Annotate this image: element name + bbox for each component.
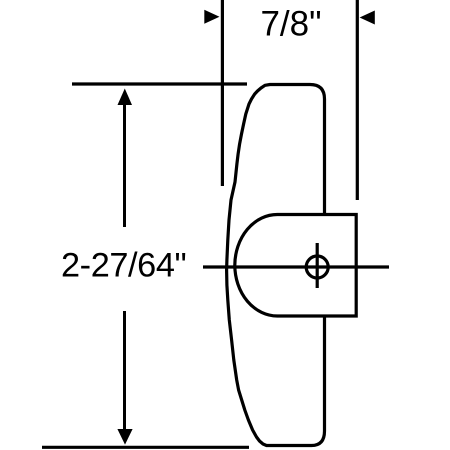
svg-text:2-27/64": 2-27/64": [61, 247, 186, 285]
svg-text:7/8": 7/8": [260, 5, 321, 44]
